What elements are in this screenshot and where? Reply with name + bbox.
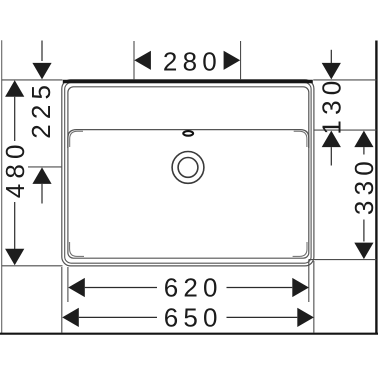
dim 130 bottom arrow (322, 131, 341, 148)
overflow slot (183, 131, 193, 136)
extension line basin top right (313, 79, 376, 81)
basin outer rim (rect A) (62, 80, 314, 266)
svg-text:650: 650 (164, 303, 223, 333)
dim 480 label (0, 139, 30, 198)
extension line bowl top right (314, 129, 377, 131)
extension line 650 left (61, 267, 63, 333)
dim 280 right arrow (224, 51, 241, 70)
svg-text:280: 280 (163, 46, 222, 76)
dim 650 right arrow (297, 308, 314, 327)
dim 650 label (164, 303, 223, 333)
extension line 280 right (240, 41, 242, 80)
dim 130 bottom stem (330, 147, 332, 165)
bowl corner inner arc bottom-left (70, 242, 84, 256)
dim 480 lower stem (14, 202, 16, 249)
extension line 620 right (308, 260, 310, 302)
dim 480 top arrow (5, 80, 24, 97)
dim 480 bottom arrow (5, 249, 24, 265)
dim 225 top stem (41, 41, 43, 62)
svg-text:130: 130 (317, 76, 347, 135)
svg-text:330: 330 (349, 156, 378, 215)
dim 225 bottom arrow (32, 167, 51, 184)
extension line basin bottom left (2, 265, 63, 267)
extension line basin top left (2, 79, 63, 81)
dim 330 upper stem (363, 147, 365, 154)
dim 280 left arrow (134, 51, 151, 70)
dim 225 top arrow (32, 63, 51, 80)
dim 330 bottom arrow (354, 243, 373, 260)
dim 280 label (163, 46, 222, 76)
svg-text:480: 480 (0, 139, 30, 198)
dim 620 left line (85, 287, 157, 289)
dim 620 left arrow (68, 278, 85, 297)
dim 130 top stem (330, 50, 332, 63)
frame right border (375, 41, 377, 335)
svg-text:225: 225 (26, 80, 56, 139)
svg-text:620: 620 (164, 273, 223, 303)
extension line 650 right (313, 261, 315, 333)
dim 130 label (317, 76, 347, 135)
dim 620 label (164, 273, 223, 303)
dim 650 left arrow (62, 308, 79, 327)
dim 330 label (349, 156, 378, 215)
bowl corner inner arc top-left (70, 131, 83, 147)
basin back wall thick edge (63, 80, 313, 83)
bowl corner inner arc top-right (294, 131, 307, 147)
dim 225 label (26, 80, 56, 139)
frame left border (1, 40, 3, 334)
bowl corner inner arc bottom-right (293, 242, 307, 256)
dim 620 right arrow (292, 278, 309, 297)
extension line 620 left (67, 267, 69, 302)
frame bottom border (0, 333, 378, 335)
basin rim inner line (rect B) (65, 83, 311, 264)
bowl top edge (68, 130, 309, 148)
dim 650 left line (79, 316, 157, 318)
dim 330 top arrow (354, 131, 373, 148)
basin deck edge (rect C) (68, 87, 309, 258)
extension line deck bottom right (309, 259, 377, 261)
extension line 280 left (133, 41, 135, 80)
dim 225 bottom stem (41, 184, 43, 204)
dim 130 top arrow (322, 63, 341, 80)
dim 650 right line (227, 316, 298, 318)
drain hole inner circle (178, 158, 198, 178)
drain hole outer circle (172, 152, 204, 184)
dim 480 upper stem (14, 97, 16, 141)
dim 620 right line (227, 287, 293, 289)
dim 330 lower stem (363, 220, 365, 242)
extension line drain center left (28, 166, 62, 168)
